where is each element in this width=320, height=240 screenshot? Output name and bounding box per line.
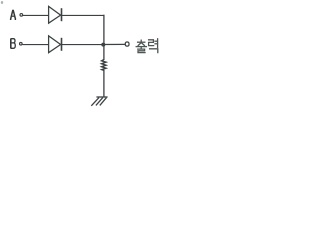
wire junction to resistor <box>103 45 105 60</box>
junction node <box>101 43 105 47</box>
label 출력 (output) <box>136 39 158 53</box>
diode D2 (input B) <box>49 36 62 53</box>
char 출 <box>140 40 142 41</box>
wire resistor to ground <box>103 70 105 97</box>
terminal A <box>20 14 23 17</box>
output terminal <box>125 42 129 46</box>
char 력 <box>149 40 154 46</box>
label A <box>10 10 16 20</box>
wire B after diode <box>62 44 105 46</box>
scan speck top-left <box>1 1 3 4</box>
wire corner down <box>103 15 105 45</box>
wire B to diode <box>23 44 49 46</box>
label B <box>11 39 16 49</box>
wire to output <box>104 43 126 45</box>
ground <box>91 97 107 106</box>
terminal B <box>20 43 23 46</box>
resistor R1 <box>102 60 106 71</box>
wire A to diode <box>23 14 49 16</box>
wire A after diode <box>62 14 105 16</box>
diode D1 (input A) <box>49 6 62 23</box>
